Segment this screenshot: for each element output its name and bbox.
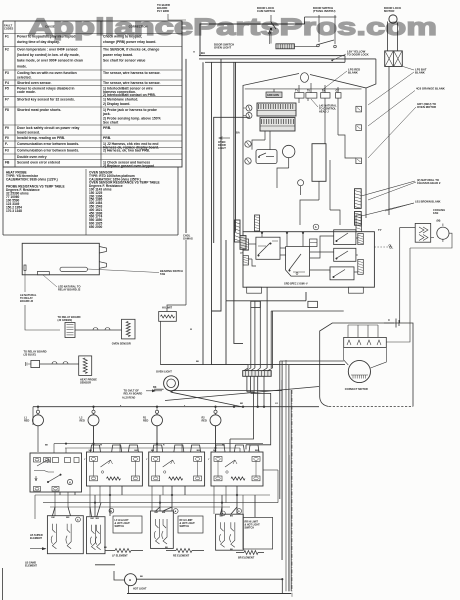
wire left v234 [234,62,243,343]
svg-text:PRB.: PRB. [103,126,111,130]
svg-text:AppliancePartsPros.com: AppliancePartsPros.com [28,14,437,41]
svg-text:(locked by control) in low. of: (locked by control) in low. of dly mode, [17,53,80,57]
svg-text:OL: OL [389,244,393,248]
transistor Q3 [245,141,251,147]
svg-text:X: X [388,318,390,322]
svg-text:Shorted oven sensor.: Shorted oven sensor. [17,81,52,85]
svg-text:SWITCH: SWITCH [115,525,125,528]
wire mid h311 [271,310,344,312]
wire loop door circuit [200,24,305,56]
svg-text:2) Replace gassed oven keypad.: 2) Replace gassed oven keypad. [103,164,155,168]
svg-text:PRB.: PRB. [103,136,111,140]
svg-text:TY: TY [295,90,298,93]
hi-limit switch unit U1 [47,516,83,554]
svg-text:RED: RED [202,419,207,422]
svg-text:650 2000: 650 2000 [89,225,103,229]
hi-limit switch unit U3 [151,511,174,548]
svg-text:Y: Y [193,50,195,54]
svg-text:2) Interlock/Batt contact on P: 2) Interlock/Batt contact on PRB. [103,93,156,97]
wire fan right down [431,237,434,239]
wire strip right [386,323,410,342]
cooling fan box [415,223,431,242]
wire J3 to heat probe [40,363,79,365]
arrow oven door light [220,137,230,139]
door switch symbol [318,15,320,42]
wire bottom h565 [95,564,115,566]
connector PRB top [356,215,362,232]
transistor Q1 [246,105,252,111]
transistor Q2 [246,113,252,119]
svg-text:Communication error between bo: Communication error between boards. [17,149,79,153]
svg-text:Shorted key sensed for 32 seco: Shorted key sensed for 32 seconds. [17,98,75,102]
board circle CR2 [298,180,304,186]
svg-text:CONVECT MOTOR: CONVECT MOTOR [345,387,368,391]
arrow latch up [269,31,271,44]
svg-text:SM: SM [213,450,216,452]
svg-text:F4: F4 [5,81,9,85]
svg-text:CALIBRATION: 9936 ohms (123'F: CALIBRATION: 9936 ohms (123'F.) [6,178,58,182]
wire v221 [212,59,222,311]
svg-text:CAM SWITCH: CAM SWITCH [257,9,275,13]
wire chassis left double [202,62,204,364]
connector J2 plug [65,323,75,338]
svg-text:W: W [100,445,102,447]
circle A s3 [173,509,178,514]
relay enclosure bottom [226,300,306,302]
svg-text:GAMAG: GAMAG [183,237,193,241]
latch bearing plate [22,243,99,274]
svg-text:HOT LIGHT: HOT LIGHT [133,588,147,591]
resistor BR ELEMENT [244,551,258,555]
wires below GRD [246,376,248,392]
svg-text:(TTANG INSTRU): (TTANG INSTRU) [313,9,336,13]
svg-text:F9: F9 [5,126,9,130]
svg-text:2) Harness, ok, two bad PRB.: 2) Harness, ok, two bad PRB. [103,149,150,153]
cooling fan motor circle [437,227,449,239]
svg-text:F-: F- [5,142,8,146]
svg-text:BR: BR [240,403,244,405]
wires connector row up [298,85,300,93]
hi-limit switch unit U4 [216,514,244,550]
svg-text:Oven temperature : over 640F s: Oven temperature : over 640F sensed [17,48,78,52]
svg-text:GY: GY [336,90,340,93]
svg-text:SWITCH: SWITCH [180,525,190,528]
svg-text:power relay board.: power relay board. [103,53,133,57]
svg-text:F5: F5 [5,87,9,91]
svg-text:FB: FB [5,161,10,165]
svg-text:BM: BM [162,512,165,514]
wire x410 down [409,248,411,323]
wires relay down to GRD [250,308,252,368]
svg-text:F0: F0 [5,136,9,140]
wire door lock motor down [388,67,390,216]
connector J3 right [356,106,362,112]
svg-text:TAB: TAB [160,272,165,276]
svg-text:(M): (M) [437,219,441,223]
surface terminal circle P1 [33,415,44,426]
svg-text:BLANK: BLANK [348,71,358,75]
surface terminal circle P4 [210,415,221,426]
svg-text:BK: BK [165,547,169,549]
svg-text:BM: BM [91,518,94,520]
oven sensor [122,319,136,339]
svg-text:bake mode, or over 990F sensed: bake mode, or over 990F sensed in clean [17,59,83,63]
infinite switch S1 box [30,453,82,492]
connector GRD GRN [266,92,282,98]
svg-text:BM: BM [197,450,201,452]
svg-text:170.3 1348: 170.3 1348 [6,209,22,213]
svg-text:SM: SM [89,450,92,452]
convect enclosure [320,323,413,407]
board circle CR1 [283,145,295,157]
svg-text:BK: BK [222,445,226,447]
relay RY5 [330,267,354,280]
svg-text:LF ELEMENT: LF ELEMENT [112,555,128,558]
door lock motor circle [389,15,397,23]
svg-text:See chart for sensor value: See chart for sensor value [103,59,146,63]
svg-text:F3: F3 [5,149,9,153]
connector PRB right2 [358,259,364,274]
wire cam to loop [270,33,272,44]
svg-text:BM: BM [96,518,99,520]
svg-text:1) Probe jack or harness to pr: 1) Probe jack or harness to probe [103,108,157,112]
resistor LF ELEMENT [115,549,131,553]
svg-text:Invalid temp. reading on PRB.: Invalid temp. reading on PRB. [17,136,65,140]
infinite switch S3 box [153,445,163,452]
connector J3 plug [31,361,40,368]
svg-text:MOTOR: MOTOR [384,9,394,13]
svg-text:F7: F7 [5,98,9,102]
svg-text:GRD SPEC LYOM I-V: GRD SPEC LYOM I-V [284,283,308,286]
label LPS RED pointer2 [403,67,414,71]
svg-text:2) Display board.: 2) Display board. [103,102,130,106]
svg-text:TY: TY [378,228,382,232]
bus below row1 [35,494,270,496]
svg-text:F2: F2 [5,48,9,52]
latch box [276,44,295,49]
info block frame [2,167,4,235]
relay RY1 [256,237,280,259]
chassis dash-dot right [291,390,293,597]
svg-text:4C6 ORANGE BLANK: 4C6 ORANGE BLANK [416,87,445,91]
junction dots bottom bus [37,406,39,408]
svg-text:code mode.: code mode. [17,90,36,94]
surface terminal circle P2 [88,415,99,426]
svg-text:LIGHT: LIGHT [218,146,226,150]
svg-text:Shorted meat probe shorts.: Shorted meat probe shorts. [17,108,61,112]
bus row1 top wires [54,443,263,445]
oven light bulb [164,376,179,391]
door lock cam switch symbol [270,15,272,22]
relay K1 [256,150,277,164]
svg-text:The sensor, wire harness to se: The sensor, wire harness to sensor. [103,71,161,75]
svg-text:BM: BM [155,512,158,514]
hi-limit unit feed wires [52,507,55,516]
svg-text:The sensor, wire harness to se: The sensor, wire harness to sensor. [103,81,161,85]
ground chassis [384,322,394,324]
label LF HI LIMIT switch [113,516,142,533]
svg-text:OVEN LIGHT: OVEN LIGHT [214,46,231,50]
wire J7 pointer [361,203,414,216]
svg-text:ALJ2 READ: ALJ2 READ [122,396,136,399]
svg-text:GRD GRN: GRD GRN [267,94,279,97]
svg-text:BM: BM [255,450,259,452]
svg-text:BA: BA [236,131,240,135]
resistor RE ELEMENT [176,549,192,553]
svg-text:BK: BK [104,547,108,549]
svg-text:BM: BM [134,450,138,452]
connector PRB left2 [243,256,249,265]
circle M s2 [109,508,114,513]
wire J6 pointer [361,181,415,196]
svg-text:BOARD J2: BOARD J2 [20,299,34,303]
svg-text:PLY BRD: PLY BRD [157,9,169,13]
wire bus left down [32,407,34,425]
svg-text:HI LIMIT: HI LIMIT [162,306,173,310]
svg-text:(J2 GREEN): (J2 GREEN) [58,318,73,322]
arrow lb [42,548,46,550]
connector board bottom left [255,215,260,231]
label RF HI LIMIT switch [178,516,203,533]
infinite switch S4 box [215,445,225,452]
wire board left bracket [214,117,250,243]
svg-text:SENSOR: SENSOR [80,381,91,385]
door lock motor wires [387,22,389,51]
connector row J102 [295,93,304,99]
connector J6 right [355,189,362,209]
connector PRB left top [235,220,241,242]
svg-text:W: W [190,329,192,331]
wires right verticals [281,380,283,560]
heat probe sensor [79,356,92,376]
chip U1 [257,103,296,116]
svg-text:BM: BM [230,515,233,517]
svg-text:SM: SM [151,450,154,452]
wire hi limit down [159,321,161,364]
wire J2 to oven sensor [75,329,122,331]
svg-text:BK: BK [45,445,49,447]
node A circ [313,224,319,230]
svg-text:FAN: FAN [433,211,438,215]
svg-text:M: M [110,511,112,513]
svg-text:The SENSOR, if checks ok, chan: The SENSOR, if checks ok, change [103,48,159,52]
svg-text:TO DOOR LOCK: TO DOOR LOCK [347,53,369,57]
svg-text:mode.: mode. [17,64,27,68]
hi limit switch [159,312,177,322]
convect motor [348,360,370,382]
svg-text:F1: F1 [5,35,9,39]
svg-text:selected.: selected. [17,75,32,79]
svg-text:CHASSIS HEAD 2: CHASSIS HEAD 2 [417,181,441,185]
bus below row1 extra [109,486,111,516]
wire chassis bottom [160,364,345,366]
svg-text:BK: BK [140,576,144,578]
svg-text:SWITCH: SWITCH [245,527,255,530]
chip U2 [260,118,295,132]
junction dots row wires [93,443,95,445]
power relay board outline [243,232,374,288]
svg-text:See chart: See chart [103,121,119,125]
bus top bottom-section [33,406,319,408]
board internal wires [298,98,300,103]
svg-text:H: H [69,481,71,484]
svg-text:BK: BK [230,549,234,551]
svg-text:OVEN MOTOR: OVEN MOTOR [417,105,436,109]
fault code table grid [3,21,182,167]
svg-text:RE ELEMENT: RE ELEMENT [173,555,190,558]
svg-text:1) Membrane shorted.: 1) Membrane shorted. [103,98,138,102]
svg-text:BA: BA [201,51,205,55]
svg-text:BM: BM [66,517,69,519]
svg-text:Double oven entry: Double oven entry [17,155,47,159]
wire oven light right [172,390,282,392]
wire cooling fan left [400,227,416,229]
svg-text:F8: F8 [5,108,9,112]
circle D s4 [237,509,242,514]
convect terminal strip [344,337,387,347]
svg-text:ELEMENT: ELEMENT [25,564,37,567]
svg-text:CODES: CODES [4,27,13,31]
svg-text:RED: RED [143,419,148,422]
connector PRB right1 [358,234,364,245]
svg-text:BM: BM [51,517,54,519]
svg-text:RED: RED [80,419,85,422]
relay RY2 [286,247,310,277]
svg-text:Communication error between bo: Communication error between boards. [17,142,79,146]
svg-text:RELAY BOARD J2: RELAY BOARD J2 [58,288,81,292]
wire lb super [30,548,46,550]
svg-text:BR ELEMENT: BR ELEMENT [238,557,255,560]
wire plate to J2 [25,305,60,330]
svg-text:OVEN SENSOR: OVEN SENSOR [112,342,131,346]
svg-text:board sensed.: board sensed. [17,130,40,134]
door lock motor winding box [385,51,403,67]
svg-text:Second oven error entered: Second oven error entered [17,161,60,165]
surface terminal circle P3 [152,415,163,426]
component D1 [310,239,317,247]
label RR HI LIMIT switch [243,517,273,549]
svg-text:HEAD J: HEAD J [319,110,329,114]
svg-text:(J3 BLUE): (J3 BLUE) [24,353,37,357]
circle B s4 [221,511,226,516]
svg-text:RED: RED [24,419,29,422]
relay board internal wires [249,243,256,245]
transistor Q4 [245,158,251,164]
hi-limit switch unit U2 [87,517,106,554]
wire latch to right [295,46,320,48]
wires right pair down [279,361,281,499]
relay RY4 [334,248,356,261]
wire CHOL down [185,59,187,233]
svg-text:BLANK: BLANK [415,71,425,75]
wires mid horizontals [212,364,249,366]
connector J4 right [356,125,362,131]
capacitor C1 [312,144,326,182]
connector J5 right [356,158,362,164]
svg-text:A: A [315,225,317,229]
svg-text:OVEN LIGHT: OVEN LIGHT [156,370,172,374]
svg-text:LB1 BROWN BLANK: LB1 BROWN BLANK [415,200,441,204]
relay RY3 [334,230,356,245]
svg-text:H: H [129,578,131,582]
wires terminal strip up [347,325,349,337]
control board chassis outline [243,74,299,232]
connector J2 relay left [240,236,246,250]
terminal block GRD [243,371,272,377]
hot light [125,574,137,586]
connector J7 right [355,212,362,226]
svg-text:BK: BK [153,386,157,389]
svg-text:ELEMENT: ELEMENT [30,537,42,540]
chassis dash-dot bottomleft [2,568,4,600]
wire from blwr label [168,14,186,20]
infinite switch S2 box [91,445,101,452]
bus bottom [127,593,291,595]
svg-text:F3: F3 [5,71,9,75]
svg-text:BK: BK [196,361,200,363]
connector PRB left1 [243,239,249,250]
svg-text:RELAY BOARD: RELAY BOARD [124,392,143,396]
wire loop right down [366,59,376,88]
